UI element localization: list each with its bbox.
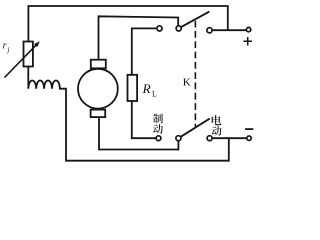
svg-text:K: K <box>183 77 191 89</box>
svg-text:r: r <box>3 41 7 52</box>
svg-text:R: R <box>142 81 151 96</box>
svg-text:j: j <box>6 45 9 54</box>
svg-text:L: L <box>152 90 157 99</box>
